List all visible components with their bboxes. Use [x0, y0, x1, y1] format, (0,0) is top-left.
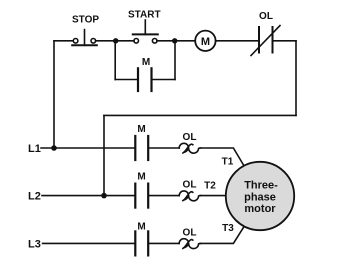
wire: OL contact to right vertical — [273, 40, 297, 42]
svg-text:M: M — [201, 36, 210, 48]
wire: L2 to motor T2 — [200, 195, 226, 197]
contact M (L2) — [135, 184, 148, 208]
wire: left vertical from rail to L1 — [53, 41, 55, 148]
coil M (motor starter coil) — [195, 31, 215, 51]
svg-text:M: M — [137, 172, 145, 183]
wire: L3 M contact to OL heater — [149, 242, 179, 244]
contact OL (NC overload contact) — [251, 26, 280, 56]
motor (three-phase motor) — [226, 162, 294, 230]
wire: holding branch bottom right — [153, 79, 176, 81]
wire: L3 to motor T3 — [200, 227, 244, 244]
wire: STOP to node A — [96, 40, 134, 42]
svg-text:L1: L1 — [28, 143, 41, 155]
wire: holding branch bottom left — [115, 79, 137, 81]
wire: L1 M contact to OL heater — [149, 147, 179, 149]
svg-text:Three-: Three- — [244, 180, 278, 192]
contact M (L1) — [135, 136, 148, 160]
pushbutton STOP (NC) — [72, 30, 97, 46]
wire: holding branch left vertical — [114, 41, 116, 80]
svg-text:T2: T2 — [204, 181, 216, 192]
node A (junction dot left of START) — [113, 38, 118, 43]
label Three-phase motor — [244, 180, 278, 215]
contact M (L3) — [135, 231, 148, 255]
node: L1 junction dot — [51, 145, 57, 151]
svg-text:L2: L2 — [28, 191, 41, 203]
wire: coil to OL contact — [216, 40, 259, 42]
svg-text:OL: OL — [259, 11, 273, 22]
wire: L3 line — [43, 242, 135, 244]
svg-text:motor: motor — [244, 203, 276, 215]
svg-text:OL: OL — [183, 180, 197, 191]
wire: return vertical down to L2 — [103, 115, 105, 195]
svg-text:M: M — [142, 57, 150, 68]
overload heater OL (L2) — [179, 191, 200, 201]
svg-text:T3: T3 — [222, 223, 234, 234]
overload heater OL (L1) — [179, 143, 200, 153]
svg-text:L3: L3 — [28, 239, 41, 251]
svg-text:M: M — [137, 124, 145, 135]
overload heater OL (L3) — [179, 239, 200, 249]
wire: return horizontal — [104, 114, 296, 116]
svg-text:M: M — [137, 221, 145, 232]
svg-text:T1: T1 — [222, 156, 234, 167]
wire: right vertical down — [295, 41, 297, 116]
svg-text:phase: phase — [244, 191, 276, 203]
node: L2 junction dot (control return) — [101, 193, 107, 199]
wire: START to coil — [157, 40, 195, 42]
wire: L2 M contact to OL heater — [149, 195, 179, 197]
wire: L2 line — [42, 195, 134, 197]
svg-text:STOP: STOP — [72, 14, 99, 25]
wire: top rail left segment — [54, 40, 73, 42]
svg-text:START: START — [128, 9, 161, 20]
contact M (holding/seal-in contact) — [138, 68, 152, 91]
svg-text:OL: OL — [183, 132, 197, 143]
node B (junction dot right of START) — [172, 38, 177, 43]
wire: L1 line — [41, 147, 134, 149]
wire: holding branch right vertical — [174, 41, 176, 80]
svg-text:OL: OL — [183, 227, 197, 238]
wire: L1 to motor T1 — [200, 148, 244, 166]
pushbutton START (NO) — [133, 20, 158, 43]
